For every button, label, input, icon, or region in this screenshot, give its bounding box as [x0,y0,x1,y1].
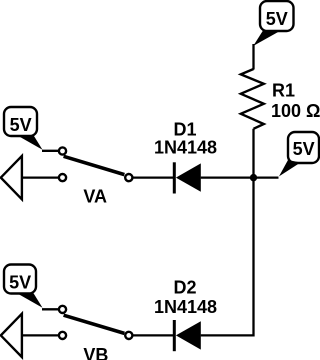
power flag 5V (top, feeds R1) [253,1,293,46]
power flag 5V (switch A) [4,107,43,150]
svg-text:R1: R1 [272,81,295,101]
power flag 5V (right, at junction) [279,132,319,176]
svg-text:D2: D2 [173,277,196,297]
wire flag A to switch [42,150,58,152]
node junction (R1 / D1 / 5V flag) [250,174,257,181]
switch SW-A [59,147,133,181]
svg-text:5V: 5V [10,115,32,135]
svg-text:5V: 5V [266,9,288,29]
wire D1 anode to junction [201,176,254,178]
resistor R1 [241,69,264,129]
wire junction to right flag [254,176,279,178]
wire main vertical (resistor to bottom corner) and bottom horizontal to D2 [201,129,254,336]
switch SW-B [59,306,133,339]
svg-text:1N4148: 1N4148 [154,297,217,317]
svg-text:5V: 5V [293,139,315,159]
wire flag B to switch [42,308,58,310]
diode D2 1N4148 [133,320,201,351]
svg-text:VB: VB [83,345,108,360]
input port VB (triangle) [1,314,59,357]
svg-text:VA: VA [83,187,107,207]
svg-text:1N4148: 1N4148 [154,137,217,157]
diode D1 1N4148 [133,162,201,193]
svg-text:5V: 5V [9,273,31,293]
power flag 5V (switch B) [4,265,43,308]
wire top flag to resistor [252,44,254,70]
input port VA (triangle) [1,156,59,199]
svg-text:100 Ω: 100 Ω [271,101,320,121]
